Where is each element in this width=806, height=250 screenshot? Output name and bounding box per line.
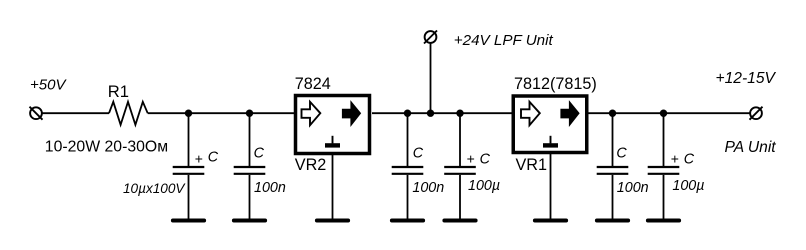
capacitor C1 (10ux100V) xyxy=(173,167,205,174)
wire C5 to ground xyxy=(612,175,614,219)
svg-text:C: C xyxy=(413,145,424,161)
svg-text:+: + xyxy=(671,150,679,166)
regulator VR1 box xyxy=(513,96,587,153)
svg-text:+24V LPF Unit: +24V LPF Unit xyxy=(454,32,554,49)
node at C2 xyxy=(246,110,253,117)
ground under C4 xyxy=(444,219,475,223)
svg-text:VR2: VR2 xyxy=(295,156,327,174)
wire C4 to ground xyxy=(459,175,461,219)
svg-text:100n: 100n xyxy=(254,180,286,196)
node at +24V tap xyxy=(427,110,434,117)
svg-text:7824: 7824 xyxy=(295,75,331,93)
svg-text:10µx100V: 10µx100V xyxy=(123,181,186,196)
wire +24V tap xyxy=(430,43,432,113)
svg-text:+: + xyxy=(195,150,203,166)
svg-text:+12-15V: +12-15V xyxy=(716,70,777,87)
resistor R1 xyxy=(109,102,148,125)
wire node to C5 xyxy=(612,113,614,166)
wire C2 to ground xyxy=(249,175,251,219)
svg-text:+: + xyxy=(467,150,475,166)
wire terminal to R1 xyxy=(42,112,109,114)
output arrow (solid) of VR2 xyxy=(343,102,361,125)
terminal IN (+50V) xyxy=(30,107,43,120)
ground under C6 xyxy=(648,219,679,223)
node at C6 xyxy=(660,110,667,117)
svg-text:10-20W 20-30Ом: 10-20W 20-30Ом xyxy=(45,139,168,156)
svg-text:C: C xyxy=(480,151,491,167)
ground under C2 xyxy=(234,219,265,223)
svg-text:VR1: VR1 xyxy=(516,156,548,174)
terminal OUT (+12-15V) xyxy=(750,107,763,120)
capacitor C3 (100n) xyxy=(392,167,424,174)
wire C1 to ground xyxy=(188,175,190,219)
label +C of C6 xyxy=(671,150,695,167)
wire VR2 to ground xyxy=(332,155,334,220)
svg-text:R1: R1 xyxy=(108,82,129,101)
capacitor C4 (100u) xyxy=(444,167,476,174)
svg-text:C: C xyxy=(616,145,627,161)
capacitor C6 (100u) xyxy=(648,167,680,174)
ground under VR1 xyxy=(535,219,566,223)
ground under VR2 xyxy=(317,219,348,223)
svg-text:C: C xyxy=(254,145,265,161)
wire VR1 to OUT xyxy=(587,112,750,114)
node at C3 xyxy=(404,110,411,117)
wire node to C3 xyxy=(407,113,409,166)
wire node to C2 xyxy=(249,113,251,166)
output arrow (solid) of VR1 xyxy=(561,102,579,125)
node at C4 xyxy=(456,110,463,117)
node at C5 xyxy=(609,110,616,117)
svg-text:100n: 100n xyxy=(617,180,649,196)
svg-text:C: C xyxy=(684,151,695,167)
terminal +24V xyxy=(424,31,437,44)
svg-text:100n: 100n xyxy=(412,180,444,196)
input arrow (open) of VR2 xyxy=(302,102,321,125)
wire node to C6 xyxy=(663,113,665,166)
ground pin symbol inside VR1 xyxy=(543,136,558,146)
ground under C5 xyxy=(597,219,628,223)
svg-text:PA Unit: PA Unit xyxy=(725,139,777,156)
svg-text:100µ: 100µ xyxy=(468,178,500,194)
wire VR1 to ground xyxy=(550,154,552,220)
svg-text:+50V: +50V xyxy=(30,77,67,94)
input arrow (open) of VR1 xyxy=(521,102,540,125)
regulator VR2 box xyxy=(296,96,370,154)
wire node to C4 xyxy=(459,113,461,166)
svg-text:100µ: 100µ xyxy=(672,178,704,194)
wire C3 to ground xyxy=(407,175,409,219)
wire C6 to ground xyxy=(663,175,665,219)
wire VR2 to VR1 xyxy=(372,112,513,114)
label +C of C4 xyxy=(467,150,491,167)
wire R1 to VR2 xyxy=(148,112,295,114)
label +C of C1 xyxy=(195,149,219,166)
capacitor C2 (100n) xyxy=(234,167,266,174)
node at C1 xyxy=(185,110,192,117)
ground under C1 xyxy=(173,219,204,223)
capacitor C5 (100n) xyxy=(597,167,629,174)
svg-text:C: C xyxy=(208,149,219,165)
ground pin symbol inside VR2 xyxy=(325,136,340,146)
wire node to C1 xyxy=(188,113,190,166)
ground under C3 xyxy=(392,219,423,223)
svg-text:7812(7815): 7812(7815) xyxy=(514,75,597,93)
